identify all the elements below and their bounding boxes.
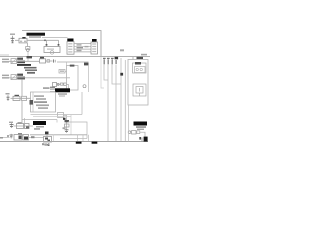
- wire: [11, 97, 31, 99]
- lamp: [83, 85, 86, 88]
- net label V1: [103, 58, 106, 59]
- wire rowB: [3, 137, 10, 139]
- component below: [45, 144, 48, 146]
- wire stub down: [101, 57, 104, 88]
- gnd bar 2: [92, 142, 98, 144]
- wire pin4: [74, 51, 91, 53]
- component M1: [15, 95, 20, 97]
- wire: [46, 60, 53, 62]
- wire: [46, 135, 48, 137]
- wire: [27, 52, 29, 62]
- label bar dark: [17, 64, 31, 66]
- component on X: [65, 124, 70, 127]
- wire drop right: [58, 40, 60, 46]
- net label: [141, 54, 147, 56]
- title1 text: [29, 36, 41, 38]
- component rowB 0: [7, 135, 9, 137]
- wire pin1: [74, 43, 91, 45]
- pin label: [77, 50, 82, 51]
- component N2: [25, 124, 30, 129]
- component F2: [47, 60, 50, 63]
- pin label: [77, 44, 82, 45]
- op-amp U1 body: [67, 42, 74, 55]
- wire: [140, 132, 145, 136]
- component left: [31, 136, 35, 138]
- wire ch1: [9, 60, 40, 62]
- wire drop left: [46, 40, 48, 46]
- component center blob: [45, 132, 49, 135]
- node dot: [58, 44, 60, 46]
- net label: [84, 63, 89, 66]
- wire bottom of J: [31, 114, 83, 116]
- wire vertical A2: [24, 118, 26, 124]
- wire box top: [68, 122, 87, 139]
- connector U2 cap: [92, 39, 97, 42]
- wire: [88, 65, 90, 92]
- fuse box: [53, 83, 57, 87]
- wire stubs: [50, 89, 55, 91]
- wire bus1: [0, 56, 150, 58]
- text rowB: [0, 137, 3, 139]
- label box TITLE2: [55, 88, 70, 92]
- wire drop row: [56, 120, 58, 123]
- wire: [33, 116, 71, 118]
- component dark blob: [17, 74, 23, 76]
- wire top rail: [22, 31, 101, 57]
- box small: [58, 113, 64, 118]
- text above J: [43, 87, 50, 89]
- component dark blob: [17, 58, 23, 60]
- wire: [57, 83, 61, 85]
- wire: [15, 39, 19, 41]
- gnd marks: [42, 143, 44, 145]
- wire row: [22, 119, 57, 121]
- wire vertical A: [21, 80, 23, 97]
- component box left: [59, 70, 65, 74]
- wire vertical V2: [107, 65, 109, 142]
- net label V3: [111, 58, 114, 59]
- wire center row: [30, 134, 87, 136]
- capacitor C2 label: [6, 93, 10, 95]
- wire: [66, 62, 68, 66]
- connector U2 body: [91, 42, 98, 54]
- op-amp U1 cap: [67, 39, 73, 42]
- node tick: [132, 57, 134, 60]
- wire vertical V4: [115, 65, 117, 142]
- wire: [27, 39, 59, 41]
- connector pins: [139, 137, 141, 140]
- label box TITLE3: [33, 121, 46, 125]
- wire vertical E2: [81, 92, 83, 115]
- wire vertical R1: [120, 58, 122, 141]
- net label ch2: [2, 75, 9, 77]
- label box TITLE4: [134, 122, 148, 126]
- component on X: [65, 120, 70, 122]
- bridge D2: [11, 75, 16, 80]
- component right box: [132, 131, 137, 134]
- node J1: [44, 39, 46, 41]
- net label V2: [107, 58, 110, 59]
- title4 text: [136, 126, 146, 128]
- node dark: [120, 73, 123, 76]
- wire mid: [57, 61, 89, 63]
- text inside J: [34, 95, 44, 97]
- text: [27, 56, 33, 58]
- node dot: [46, 44, 48, 46]
- wire: [64, 114, 67, 116]
- net label: [120, 49, 124, 51]
- pin label: [77, 47, 84, 48]
- wire ch2: [9, 77, 70, 79]
- inner box P2: [133, 84, 146, 96]
- label box TITLE1: [27, 33, 46, 36]
- subcircuit box P outer: [128, 60, 148, 106]
- capacitor C4: [65, 129, 69, 131]
- wire net stub: [42, 37, 68, 39]
- title2 text: [58, 93, 67, 95]
- wire: [60, 138, 87, 140]
- wire verticals to gnd: [77, 135, 79, 142]
- wire vertical V1: [104, 65, 108, 81]
- component N1: [18, 123, 22, 125]
- pin label: [85, 46, 89, 47]
- wire vertical X2: [70, 115, 72, 135]
- subcircuit box J: [31, 92, 56, 112]
- text block: [24, 67, 37, 69]
- capacitor C3: [11, 123, 13, 128]
- lamp right: [128, 131, 131, 134]
- component rowB 3: [23, 135, 29, 141]
- wire rowA: [14, 125, 34, 127]
- node: [57, 83, 59, 85]
- component U3 box: [19, 38, 27, 43]
- title3 text: [36, 126, 44, 128]
- subcircuit box E: [67, 66, 79, 91]
- component F1: [40, 57, 44, 59]
- net label V4: [115, 57, 119, 60]
- component M2: [22, 96, 27, 100]
- relay K2: [44, 137, 52, 143]
- relay K1 box: [44, 47, 60, 53]
- component small: [61, 83, 64, 85]
- wire stub left margin: [0, 54, 9, 56]
- gnd bar 1: [76, 142, 82, 144]
- component rowB 2: [14, 135, 22, 141]
- inner box P1: [133, 63, 147, 73]
- node dot: [63, 118, 66, 120]
- wire: [65, 71, 67, 73]
- wire vertical X: [66, 115, 68, 133]
- wire pin2: [74, 45, 91, 47]
- wire drop K2: [53, 135, 55, 142]
- bridge D1: [11, 59, 16, 64]
- wire vertical right: [128, 105, 130, 142]
- capacitor C2: [7, 95, 9, 101]
- terminal: [53, 59, 55, 62]
- net label: [137, 57, 144, 59]
- box small dark: [30, 100, 34, 105]
- blob: [70, 65, 75, 67]
- net label ch1: [2, 59, 9, 61]
- wire pin3: [74, 48, 91, 50]
- capacitor C5: [27, 43, 29, 47]
- wire vertical V3: [112, 65, 121, 85]
- wire vertical R2: [124, 60, 126, 141]
- capacitor C3 label: [9, 122, 13, 123]
- capacitor rowB: [10, 134, 12, 139]
- label: [63, 127, 66, 129]
- capacitor C1: [12, 36, 14, 43]
- component right box2: [137, 131, 140, 134]
- wire bus2 bottom: [0, 141, 148, 143]
- capacitor C1 label: [10, 34, 15, 35]
